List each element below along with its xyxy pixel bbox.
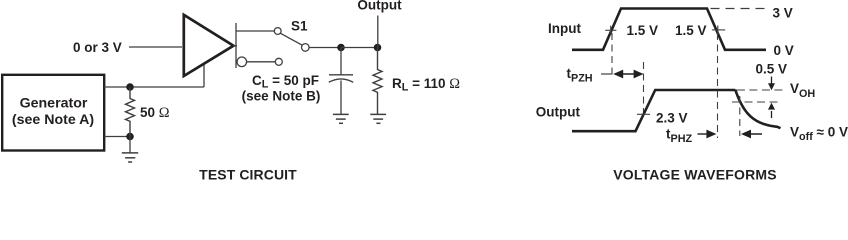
svg-text:RL = 110 Ω: RL = 110 Ω — [392, 76, 460, 94]
wire: buffer output to switch pole bar — [234, 45, 238, 47]
svg-text:VOLTAGE WAVEFORMS: VOLTAGE WAVEFORMS — [613, 167, 777, 182]
wire: output label riser — [377, 16, 379, 48]
op-amp buffer (triangle) — [184, 15, 234, 76]
tick 2.3V on output rising edge — [637, 113, 650, 115]
resistor 50 ohm — [126, 87, 170, 137]
node: junction dot bottom of 50 ohm — [126, 133, 134, 141]
resistor RL — [373, 48, 460, 115]
svg-text:0 V: 0 V — [774, 43, 794, 58]
tPHZ left arrow pointing right — [698, 130, 717, 139]
svg-text:0.5 V: 0.5 V — [756, 62, 788, 77]
wire: generator bottom terminal — [104, 136, 130, 138]
svg-text:tPHZ: tPHZ — [666, 127, 692, 146]
svg-text:VOH: VOH — [790, 81, 815, 100]
svg-text:3 V: 3 V — [773, 6, 793, 21]
dashed 3V reference — [711, 8, 766, 10]
input waveform trace — [572, 9, 766, 50]
generator box — [2, 75, 104, 151]
wire: pole bar to upper contact — [236, 30, 274, 32]
wire: enable riser to buffer bottom edge — [203, 64, 205, 88]
dashed vertical to output 2.3V — [643, 62, 645, 118]
dashed vertical at output VOH-0.5V — [739, 96, 741, 136]
svg-text:Voff ≈ 0 V: Voff ≈ 0 V — [790, 125, 848, 144]
svg-text:Generator: Generator — [20, 96, 88, 112]
svg-text:0 or 3 V: 0 or 3 V — [73, 40, 122, 55]
dashed vertical from input falling 1.5V — [717, 33, 719, 138]
svg-text:tPZH: tPZH — [567, 66, 593, 85]
switch arm — [281, 33, 303, 45]
svg-text:TEST CIRCUIT: TEST CIRCUIT — [199, 167, 297, 182]
output waveform trace — [572, 90, 735, 131]
up arrow at VOH-0.5V — [768, 103, 775, 118]
capacitor CL — [329, 48, 353, 115]
svg-text:50 Ω: 50 Ω — [140, 105, 170, 121]
svg-text:Output: Output — [536, 105, 581, 120]
svg-text:(see Note B): (see Note B) — [242, 89, 321, 104]
svg-text:Output: Output — [357, 0, 402, 13]
tick 1.5V falling — [712, 25, 725, 35]
dashed VOH level — [737, 89, 783, 91]
switch S1 upper contact circle — [274, 28, 281, 35]
wire: input to buffer — [129, 46, 182, 48]
down arrow at VOH — [768, 77, 775, 91]
svg-text:1.5 V: 1.5 V — [627, 23, 659, 38]
dashed VOH-0.5V level — [732, 101, 782, 103]
wire: generator top terminal to enable riser — [104, 86, 204, 88]
switch lower contact circle right — [275, 58, 282, 65]
tick 1.5V rising — [605, 26, 616, 36]
tPHZ right arrow pointing left — [741, 130, 762, 139]
svg-text:1.5 V: 1.5 V — [675, 23, 707, 38]
tPZH double arrow — [613, 70, 643, 79]
ground under CL — [333, 114, 349, 123]
output decay curve — [735, 90, 780, 129]
leader line tPZH — [601, 73, 612, 75]
node: junction dot top of 50 ohm — [126, 83, 134, 91]
switch lower contact circle at bar — [237, 57, 247, 67]
wire between lower contacts — [247, 61, 276, 63]
svg-text:S1: S1 — [291, 19, 308, 34]
dashed vertical from input rising 1.5V — [611, 33, 613, 79]
svg-text:2.3 V: 2.3 V — [656, 111, 688, 126]
ground under 50 ohm — [122, 137, 138, 163]
svg-text:Input: Input — [548, 21, 581, 36]
node: output junction dot — [374, 44, 382, 52]
ground under RL — [370, 114, 386, 123]
svg-text:(see Note A): (see Note A) — [12, 112, 95, 128]
node: CL junction dot — [337, 44, 345, 52]
switch throw contact circle — [302, 44, 310, 52]
switch pole bar — [235, 23, 237, 68]
wire: throw contact to CL node — [309, 47, 341, 49]
wire: CL node to output node — [341, 47, 378, 49]
